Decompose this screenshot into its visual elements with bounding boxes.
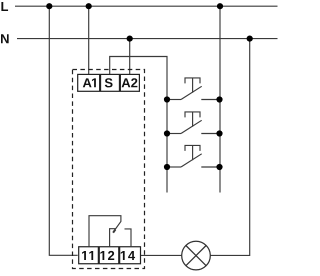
terminal label 12: [100, 251, 114, 260]
net label N: [1, 34, 9, 43]
wire from N to terminal A2: [129, 39, 131, 75]
push-button S1: [164, 78, 223, 103]
S2 actuator stem: [192, 112, 194, 127]
S2 left node: [164, 130, 170, 136]
terminal label 11: [82, 251, 93, 260]
S2 right node: [216, 130, 222, 136]
S1 right wire: [201, 99, 219, 101]
lamp E1: [182, 241, 211, 270]
terminal block 11 12 14: [79, 247, 141, 264]
S1 right node: [216, 96, 222, 102]
wire N line: [17, 38, 278, 40]
wire from L down-left to terminal 11: [49, 6, 77, 255]
wire L line: [15, 5, 278, 7]
wire from L down right switch column: [219, 6, 221, 192]
S3 left wire: [167, 166, 181, 168]
S1 actuator stem: [192, 78, 194, 93]
terminal block A1 S A2: [78, 74, 140, 91]
S1 left wire: [167, 99, 181, 101]
relay module dashed outline: [73, 70, 145, 269]
terminal label 14: [121, 251, 135, 260]
wire from L to terminal A1: [88, 6, 90, 74]
relay contact blade tip: [113, 230, 115, 233]
relay contact NO terminal 14: [125, 229, 132, 247]
S3 actuator cap: [185, 145, 200, 151]
S2 right wire: [201, 133, 219, 135]
wire from terminal 14 to lamp: [140, 254, 181, 256]
push-button S2: [164, 112, 223, 137]
net label L: [1, 2, 8, 11]
S1 contact blade: [181, 86, 202, 99]
lamp cross: [186, 246, 206, 266]
S3 actuator stem: [192, 145, 194, 160]
S3 contact blade: [181, 154, 202, 167]
lamp circle: [182, 241, 211, 270]
S3 left node: [164, 164, 170, 170]
relay changeover contact: common pole from 11 with blade: [89, 216, 121, 247]
S1 actuator cap: [185, 78, 200, 84]
node junction N-2: [247, 36, 253, 42]
relay contact NC terminal 12: [110, 229, 116, 247]
terminal label S: [105, 78, 113, 87]
node junction L-2: [86, 3, 92, 9]
S1 left node: [164, 96, 170, 102]
wire from terminal S up and to left switch column: [110, 57, 167, 193]
node junction L-3: [217, 3, 223, 9]
S3 right wire: [201, 166, 219, 168]
S2 contact blade: [181, 120, 202, 133]
S2 left wire: [167, 133, 181, 135]
terminal label A1: [83, 78, 96, 87]
node junction N-1: [127, 36, 133, 42]
S3 right node: [216, 164, 222, 170]
node junction L-1: [46, 3, 52, 9]
wire from N down to lamp: [210, 39, 249, 256]
push-button S3: [164, 145, 223, 170]
terminal label A2: [122, 78, 138, 87]
S2 actuator cap: [185, 112, 200, 118]
